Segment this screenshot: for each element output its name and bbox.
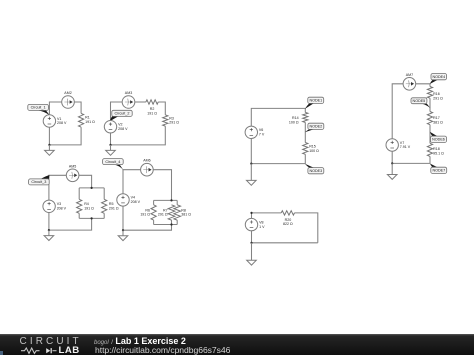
junction xyxy=(391,162,393,164)
svg-text:NODE1: NODE1 xyxy=(309,99,322,103)
wire xyxy=(49,127,81,145)
svg-text:291 Ω: 291 Ω xyxy=(169,121,179,125)
svg-text:AM3: AM3 xyxy=(125,91,132,95)
svg-text:208 V: 208 V xyxy=(57,121,67,125)
wire xyxy=(135,101,146,103)
wire xyxy=(252,242,318,244)
junction xyxy=(91,217,93,219)
svg-text:Circuit_4: Circuit_4 xyxy=(105,160,120,164)
resistor R17 xyxy=(427,112,443,125)
junction xyxy=(122,229,124,231)
svg-text:NODE7: NODE7 xyxy=(432,169,445,173)
junction xyxy=(250,163,252,165)
wire xyxy=(153,170,171,201)
svg-text:191 Ω: 191 Ω xyxy=(140,213,150,217)
wire xyxy=(416,84,430,87)
ground xyxy=(106,145,116,155)
ground xyxy=(44,230,54,240)
ammeter AM2 xyxy=(62,91,75,108)
svg-text:208 V: 208 V xyxy=(118,127,128,131)
node label NODE4 xyxy=(430,74,447,85)
wire xyxy=(74,102,81,113)
junction xyxy=(91,187,93,189)
resistor R2 xyxy=(146,100,158,116)
svg-text:NODE2: NODE2 xyxy=(309,125,322,129)
svg-text:7.91 V: 7.91 V xyxy=(400,145,411,149)
junction xyxy=(250,242,252,244)
resistor R16 xyxy=(427,87,443,101)
svg-text:V4: V4 xyxy=(131,196,135,200)
ammeter AM3 xyxy=(122,91,135,108)
junction xyxy=(170,199,172,201)
ground xyxy=(247,164,257,186)
wire xyxy=(111,126,166,145)
blue corner chip xyxy=(0,351,3,355)
wire xyxy=(176,220,178,224)
resistor R7 xyxy=(158,205,175,220)
resistor R8 xyxy=(174,205,191,220)
junction xyxy=(170,223,172,225)
junction xyxy=(48,229,50,231)
svg-text:208 V: 208 V xyxy=(57,207,67,211)
svg-text:AM6: AM6 xyxy=(143,159,150,163)
wire xyxy=(154,199,178,201)
svg-text:V7: V7 xyxy=(400,141,404,145)
svg-text:R18: R18 xyxy=(433,147,440,151)
wire xyxy=(171,220,173,224)
node label NODE6 xyxy=(430,132,447,143)
footer url line xyxy=(95,346,230,354)
svg-text:100 Ω: 100 Ω xyxy=(289,120,299,124)
wire xyxy=(103,213,105,218)
wire xyxy=(251,154,305,163)
circuit tag Circuit_2 xyxy=(110,110,133,121)
svg-text:Circuit_1: Circuit_1 xyxy=(31,106,46,110)
wire xyxy=(79,187,104,189)
svg-text:822 Ω: 822 Ω xyxy=(283,222,293,226)
voltage source V2 xyxy=(104,121,128,133)
svg-text:V1: V1 xyxy=(57,117,61,121)
wire xyxy=(49,102,61,115)
wire xyxy=(111,102,123,121)
footer title line xyxy=(94,337,186,348)
svg-text:381 Ω: 381 Ω xyxy=(181,213,191,217)
wire xyxy=(392,156,430,163)
svg-text:291 Ω: 291 Ω xyxy=(433,96,443,100)
wire xyxy=(251,231,253,243)
ground xyxy=(45,145,55,155)
wire xyxy=(122,206,124,230)
resistor R4 xyxy=(77,199,95,213)
svg-text:100 Ω: 100 Ω xyxy=(309,149,319,153)
wire xyxy=(48,127,50,145)
wire xyxy=(252,213,282,219)
svg-text:AM2: AM2 xyxy=(64,91,71,95)
svg-text:AM5: AM5 xyxy=(69,164,76,168)
svg-text:NODE4: NODE4 xyxy=(432,75,445,79)
node label NODE7 xyxy=(430,164,447,174)
junction xyxy=(109,144,111,146)
ground xyxy=(247,243,257,265)
svg-text:191 Ω: 191 Ω xyxy=(84,206,94,210)
wire xyxy=(154,224,178,226)
wire xyxy=(78,188,80,199)
svg-text:7 V: 7 V xyxy=(259,133,265,137)
CircuitLab logo text CIRCUIT xyxy=(20,337,82,346)
svg-text:208 V: 208 V xyxy=(131,200,141,204)
wire xyxy=(429,98,431,111)
node label NODE5 xyxy=(411,98,430,108)
resistor R14 xyxy=(289,112,308,124)
wire xyxy=(153,200,155,204)
svg-text:V6: V6 xyxy=(259,128,263,132)
svg-text:V2: V2 xyxy=(118,123,122,127)
svg-text:R1: R1 xyxy=(85,116,90,120)
wire xyxy=(153,220,155,224)
junction xyxy=(250,212,252,214)
wire xyxy=(304,122,306,142)
ground xyxy=(387,163,397,179)
svg-text:Circuit_3: Circuit_3 xyxy=(31,180,46,184)
wire xyxy=(176,200,178,204)
voltage source V1 xyxy=(43,115,67,127)
node label NODE2 xyxy=(305,123,324,132)
wire xyxy=(49,218,92,230)
wire xyxy=(123,170,141,194)
svg-text:R3: R3 xyxy=(169,116,174,120)
footer bar xyxy=(0,334,474,355)
wire xyxy=(48,213,50,231)
wire xyxy=(429,125,431,144)
node label NODE3 xyxy=(305,164,324,174)
wire xyxy=(295,213,318,243)
svg-text:V8: V8 xyxy=(259,220,263,224)
wire xyxy=(123,225,172,231)
node label NODE1 xyxy=(305,97,324,109)
svg-text:AM7: AM7 xyxy=(406,73,413,77)
junction xyxy=(48,144,50,146)
voltage source V3 xyxy=(43,200,67,212)
svg-text:NODE6: NODE6 xyxy=(432,138,445,142)
resistor R15 xyxy=(303,143,319,155)
svg-text:191 Ω: 191 Ω xyxy=(147,111,157,115)
svg-text:1 V: 1 V xyxy=(259,225,265,229)
ammeter AM5 xyxy=(66,164,79,181)
svg-text:291 Ω: 291 Ω xyxy=(158,213,168,217)
svg-text:95.1 Ω: 95.1 Ω xyxy=(433,152,444,156)
ammeter AM7 xyxy=(403,73,416,90)
wire xyxy=(79,175,92,188)
wire xyxy=(250,139,252,164)
circuit tag Circuit_3 xyxy=(29,175,50,185)
circuit tag Circuit_4 xyxy=(103,159,124,171)
resistor R3 xyxy=(163,115,180,126)
svg-text:NODE3: NODE3 xyxy=(309,169,322,173)
wire xyxy=(158,102,165,115)
voltage source V6 xyxy=(245,126,265,138)
wire xyxy=(251,108,305,126)
svg-text:V3: V3 xyxy=(57,202,61,206)
resistor R1 xyxy=(79,113,96,127)
ammeter AM6 xyxy=(141,159,154,176)
resistor R5 xyxy=(102,199,119,213)
svg-text:191 Ω: 191 Ω xyxy=(85,120,95,124)
svg-text:381 Ω: 381 Ω xyxy=(433,121,443,125)
CircuitLab logo text LAB xyxy=(59,346,80,355)
wire xyxy=(78,213,80,218)
resistor R20 xyxy=(281,211,294,227)
ground xyxy=(118,230,128,240)
svg-text:Circuit_2: Circuit_2 xyxy=(115,112,130,116)
circuit tag Circuit_1 xyxy=(28,104,50,115)
svg-text:NODE5: NODE5 xyxy=(413,99,426,103)
wire xyxy=(110,133,112,145)
svg-text:291 Ω: 291 Ω xyxy=(109,206,119,210)
wire xyxy=(391,151,393,163)
resistor R6 xyxy=(140,205,156,220)
svg-text:R17: R17 xyxy=(433,116,440,120)
resistor R18 xyxy=(427,143,444,156)
wire xyxy=(103,188,105,199)
voltage source V7 xyxy=(386,139,411,151)
wire xyxy=(49,175,66,200)
voltage source V8 xyxy=(245,218,265,230)
wire xyxy=(79,217,104,219)
wire xyxy=(392,84,403,139)
CircuitLab logo resistor glyph xyxy=(21,347,57,355)
voltage source V4 xyxy=(117,194,141,206)
